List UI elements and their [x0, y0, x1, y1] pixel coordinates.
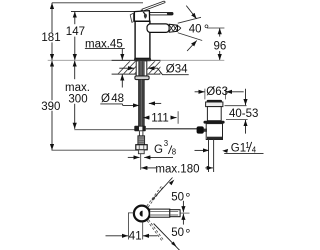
hex nut G3/8 — [136, 145, 147, 150]
deck reference line — [48, 59, 225, 61]
tee clamp — [134, 126, 146, 131]
dimension 390 — [41, 61, 60, 151]
svg-text:8: 8 — [172, 148, 176, 157]
dimension diameter 48 — [100, 93, 161, 106]
body bottom dark band — [207, 137, 222, 140]
lower 50 degree leader — [154, 224, 180, 250]
lower body — [206, 124, 222, 140]
dimension 96 — [214, 28, 227, 60]
dimension 181 — [41, 3, 60, 60]
svg-text:300: 300 — [68, 93, 87, 105]
svg-text:Ø: Ø — [101, 93, 110, 105]
neck — [207, 107, 221, 121]
flexible supply hose — [139, 80, 145, 126]
small wedge left of head — [130, 13, 133, 22]
hose connection reference line — [74, 129, 136, 131]
dimension 40-53 — [225, 89, 259, 134]
upper 50 degree leader — [152, 178, 173, 201]
rod knob — [197, 126, 204, 133]
leader / 96 top extension — [207, 27, 224, 29]
svg-text:°: ° — [185, 226, 190, 241]
svg-text:max.180: max.180 — [155, 164, 199, 176]
dimension 111 — [143, 111, 178, 124]
svg-text:4: 4 — [252, 146, 257, 155]
dimension max.180 — [141, 154, 213, 176]
lever pivot detail — [143, 12, 145, 18]
handle axis tick — [180, 212, 189, 214]
cartridge D detail — [140, 211, 143, 217]
dimension G1 1/4 — [195, 141, 264, 155]
spout cylinder — [147, 24, 169, 33]
svg-text:°: ° — [204, 22, 209, 37]
svg-text:48: 48 — [111, 93, 124, 105]
raised lever outline — [142, 1, 165, 11]
dimension G3/8 — [128, 139, 176, 157]
extension line 147 ref — [71, 11, 134, 13]
top view escutcheon circle — [134, 206, 150, 222]
flange — [206, 102, 223, 107]
svg-text:50: 50 — [171, 191, 184, 203]
baseline of 390 (supply end reference) — [52, 149, 139, 151]
svg-text:G: G — [154, 144, 163, 156]
extension line top (181 ref) — [52, 2, 143, 4]
locknut ring — [204, 121, 225, 124]
svg-text:41: 41 — [129, 231, 142, 243]
svg-text:G1: G1 — [231, 143, 246, 155]
lever handle horizontal — [150, 12, 173, 15]
handle swing upper dashed position — [147, 185, 164, 207]
svg-text:Ø63: Ø63 — [206, 86, 228, 98]
dimension max.45 — [85, 38, 125, 87]
dimension diameter 63 — [195, 86, 244, 100]
swing angle arrows at axis — [182, 201, 184, 213]
dimension 147 — [66, 12, 85, 61]
svg-text:40-53: 40-53 — [229, 108, 258, 120]
pop-up rod — [146, 128, 197, 130]
faucet head block — [134, 11, 149, 22]
threaded adapter — [138, 136, 145, 145]
dimension diameter 34 — [119, 63, 188, 75]
mounting nut — [135, 76, 149, 80]
rod knob stem — [204, 129, 207, 132]
svg-text:111: 111 — [151, 113, 168, 125]
plug rim — [207, 100, 222, 102]
handle swing lower dashed position — [147, 220, 164, 242]
svg-text:Ø34: Ø34 — [166, 63, 188, 75]
svg-text:96: 96 — [214, 40, 227, 52]
lever base dark wedge — [141, 10, 146, 13]
dimension 41 — [106, 213, 158, 243]
top view handle bar — [150, 209, 180, 217]
svg-text:147: 147 — [66, 26, 85, 38]
threaded shank through deck — [136, 61, 147, 76]
svg-text:390: 390 — [41, 101, 60, 113]
svg-text:°: ° — [185, 190, 190, 205]
pipe below tee — [139, 131, 143, 136]
faucet body column — [135, 21, 150, 58]
svg-text:3: 3 — [164, 139, 168, 148]
tailpipe — [208, 140, 210, 173]
deck section near faucet — [112, 60, 173, 75]
aerator — [169, 24, 181, 32]
svg-text:50: 50 — [171, 227, 184, 239]
svg-text:181: 181 — [41, 32, 60, 44]
svg-text:40: 40 — [189, 23, 202, 35]
base gasket band — [134, 58, 151, 61]
svg-text:max.: max. — [65, 82, 90, 94]
nipple below nut — [138, 150, 144, 154]
dimension max.300 — [65, 61, 90, 129]
spray angle 40 degrees — [178, 6, 209, 51]
pop-up waste assembly — [197, 100, 225, 172]
